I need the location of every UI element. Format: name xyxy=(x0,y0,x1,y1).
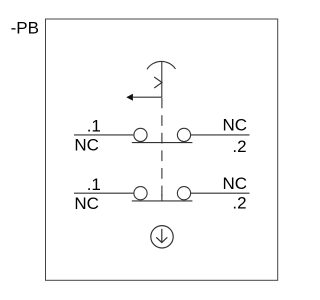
contact 1 left lead wire xyxy=(74,134,133,136)
svg-text:.2: .2 xyxy=(232,194,246,213)
actuator plunger line xyxy=(161,62,163,98)
contact 2 right lead wire xyxy=(191,192,250,194)
contact 1 right terminal circle xyxy=(177,128,190,141)
svg-text:NC: NC xyxy=(74,194,99,213)
operating direction arrowhead xyxy=(126,94,133,101)
svg-text:.2: .2 xyxy=(232,137,246,156)
enclosure box xyxy=(46,19,278,280)
contact 2 bridge bar xyxy=(132,200,193,202)
svg-text:-PB: -PB xyxy=(11,19,39,38)
contact 2 right terminal circle xyxy=(177,187,190,200)
svg-text:.1: .1 xyxy=(87,117,101,136)
contact 1 bridge bar xyxy=(132,142,193,144)
momentary chevron xyxy=(154,77,162,88)
contact 1 right lead wire xyxy=(191,134,250,136)
actuator linkage tail segment xyxy=(161,194,163,201)
contact 2 left lead wire xyxy=(74,192,133,194)
operating direction line xyxy=(133,96,162,98)
pushbutton actuator cap arc xyxy=(147,61,176,69)
svg-text:NC: NC xyxy=(74,136,99,155)
actuator dashed linkage xyxy=(161,98,163,201)
svg-text:NC: NC xyxy=(222,115,247,134)
mounting position arrow shaft xyxy=(161,229,163,242)
contact 2 left terminal circle xyxy=(134,187,147,200)
mounting position arrowhead xyxy=(156,237,167,242)
svg-text:NC: NC xyxy=(222,174,247,193)
contact 1 left terminal circle xyxy=(134,128,147,141)
mounting position circle xyxy=(151,226,173,248)
svg-text:.1: .1 xyxy=(87,175,101,194)
